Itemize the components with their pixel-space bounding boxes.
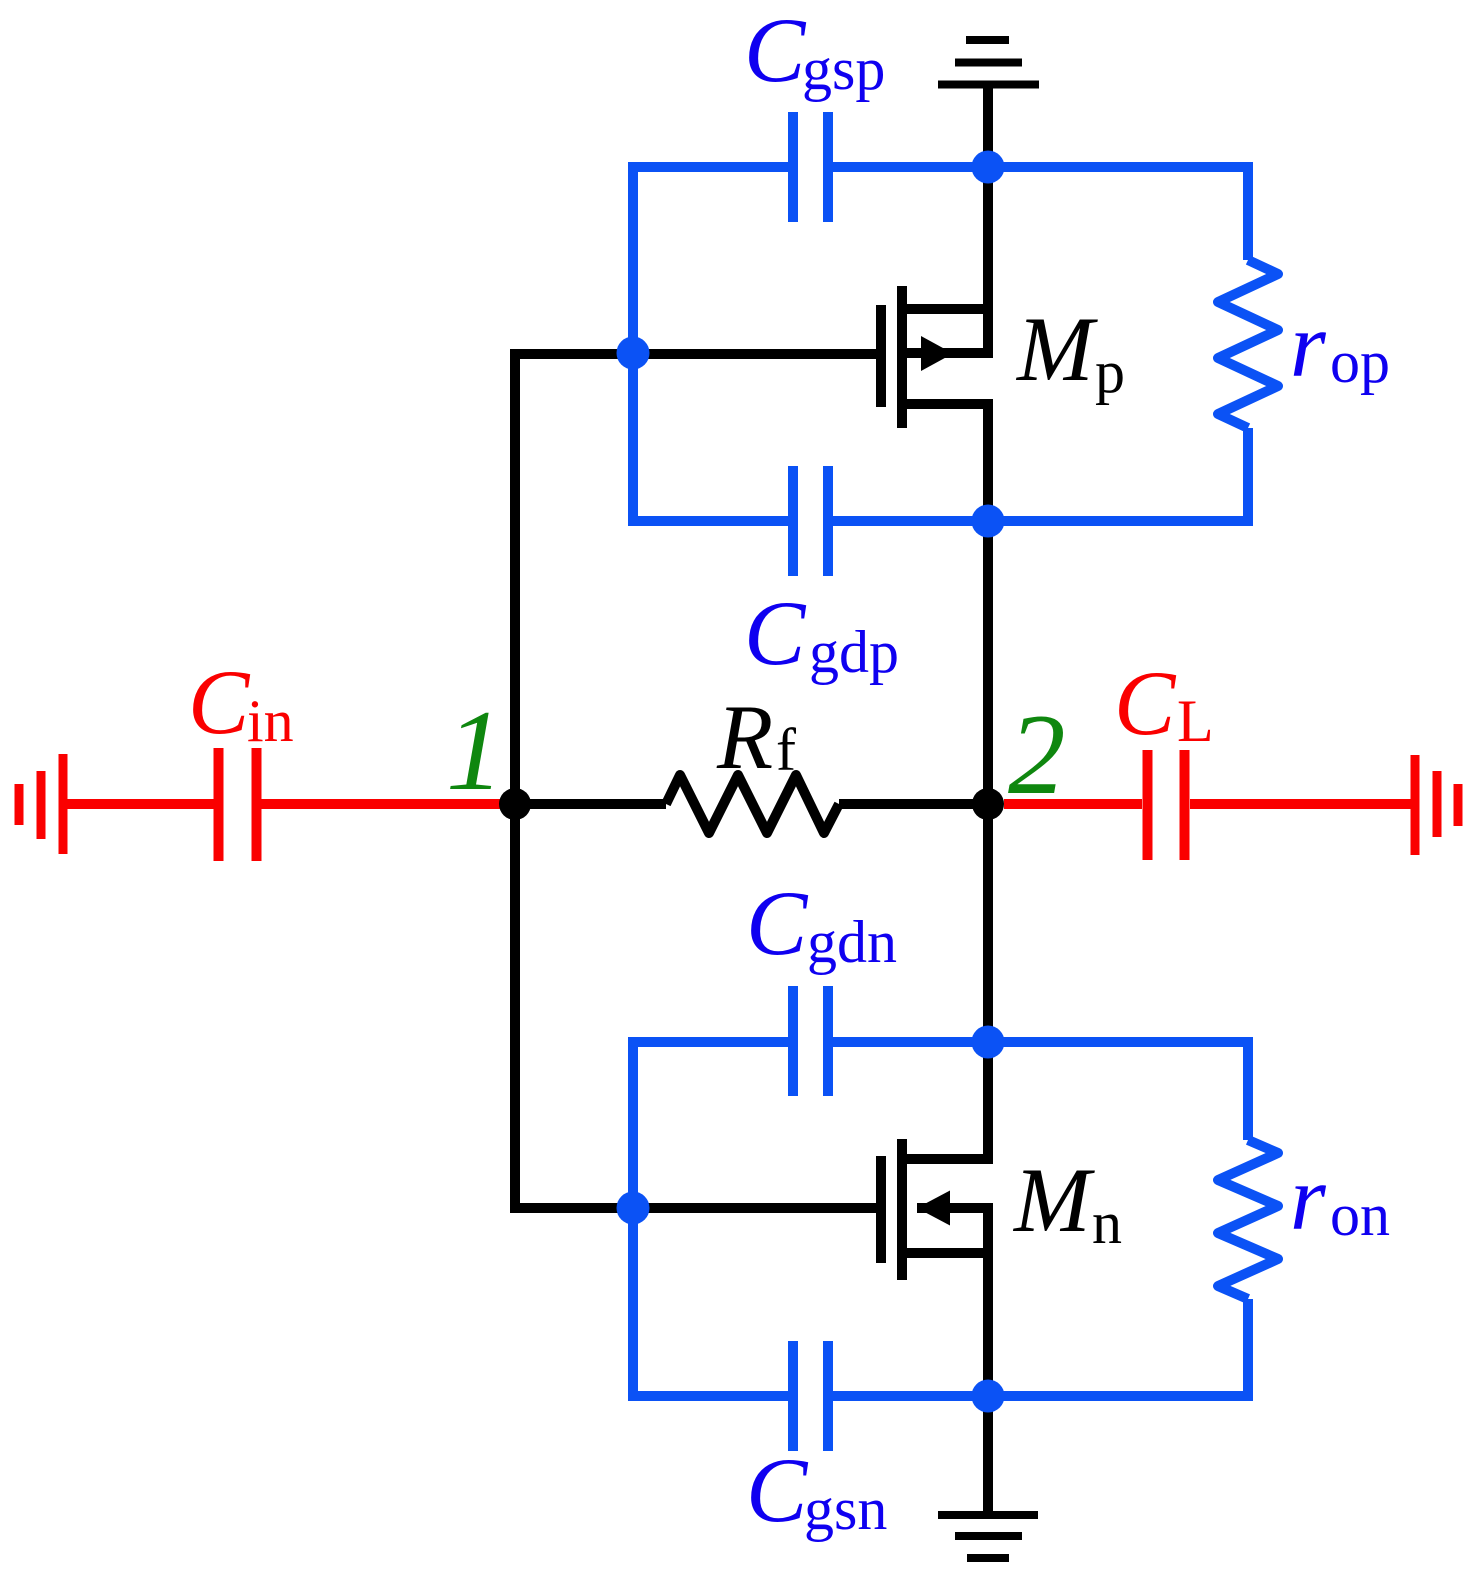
wire top ground to Mp source bbox=[983, 84, 993, 358]
capacitor Cgsp bbox=[793, 112, 828, 222]
wire blue top-left loop bbox=[633, 167, 788, 521]
wire blue row 3 to ron bbox=[833, 1042, 1248, 1140]
svg-text:1: 1 bbox=[446, 687, 504, 814]
ground (top, black) bbox=[938, 40, 1039, 85]
svg-text:n: n bbox=[1092, 1190, 1122, 1256]
label Mn bbox=[1012, 1149, 1122, 1256]
svg-text:r: r bbox=[1290, 1147, 1327, 1249]
junction blue row2 / drain line bbox=[972, 505, 1005, 538]
svg-text:C: C bbox=[744, 582, 807, 684]
ground (input, left, red) bbox=[19, 754, 63, 854]
node 2 bbox=[972, 788, 1004, 820]
wire input ground to Cin bbox=[63, 799, 214, 809]
wire CL to output ground bbox=[1190, 799, 1415, 809]
ground (output, right, red) bbox=[1415, 755, 1458, 855]
svg-text:p: p bbox=[1095, 339, 1125, 405]
resistor rop bbox=[1218, 260, 1278, 428]
svg-text:L: L bbox=[1177, 688, 1214, 754]
wire rop to blue row 2 bbox=[833, 428, 1248, 521]
label rop bbox=[1290, 294, 1390, 396]
svg-text:M: M bbox=[1012, 1149, 1095, 1251]
label Cin bbox=[188, 651, 294, 754]
svg-text:2: 2 bbox=[1008, 691, 1066, 818]
wire ron to blue row 4 bbox=[833, 1299, 1248, 1396]
junction blue row1 / drain line bbox=[972, 151, 1005, 184]
junction blue row4 / source line bbox=[972, 1380, 1005, 1413]
svg-text:gsn: gsn bbox=[804, 1476, 887, 1542]
ground (bottom, black) bbox=[938, 1515, 1038, 1558]
wire node 1 up to Mp gate bbox=[515, 354, 876, 809]
label Cgsn bbox=[746, 1439, 887, 1542]
svg-text:in: in bbox=[247, 688, 294, 754]
label node 2 bbox=[1008, 691, 1066, 818]
svg-text:M: M bbox=[1015, 298, 1098, 400]
svg-text:C: C bbox=[744, 0, 807, 101]
node 1 bbox=[499, 788, 531, 820]
svg-text:C: C bbox=[746, 872, 809, 974]
junction blue left rail / Mp gate bbox=[617, 337, 650, 370]
wire Mn source down to bottom ground bbox=[983, 1204, 993, 1519]
svg-text:gdp: gdp bbox=[809, 619, 899, 685]
svg-text:C: C bbox=[1114, 652, 1177, 754]
label Cgdp bbox=[744, 582, 899, 685]
svg-text:gdn: gdn bbox=[807, 909, 897, 975]
capacitor CL bbox=[1148, 750, 1185, 860]
resistor ron bbox=[1218, 1140, 1278, 1299]
wire blue top row to rop bbox=[833, 167, 1248, 260]
capacitor Cin bbox=[219, 748, 257, 861]
svg-text:op: op bbox=[1330, 329, 1390, 395]
junction blue left rail / Mn gate bbox=[617, 1192, 650, 1225]
label Rf bbox=[716, 686, 796, 788]
transistor Mn bbox=[881, 1139, 993, 1280]
wire node 1 down to Mn gate bbox=[515, 799, 877, 1208]
label CL bbox=[1114, 652, 1214, 754]
junction blue row3 / drain line bbox=[972, 1026, 1005, 1059]
wire Cin to node 1 bbox=[261, 799, 515, 809]
svg-text:gsp: gsp bbox=[802, 36, 885, 102]
wire node 1 to Rf bbox=[515, 799, 666, 809]
wire node 2 to CL bbox=[1004, 799, 1142, 809]
resistor Rf bbox=[666, 775, 839, 833]
svg-text:R: R bbox=[716, 686, 773, 788]
wire Mp drain to node 2 to Mn drain bbox=[983, 399, 993, 1163]
capacitor Cgdn bbox=[793, 986, 828, 1096]
label Cgsp bbox=[744, 0, 885, 102]
label node 1 bbox=[446, 687, 504, 814]
wire Rf to node 2 bbox=[839, 799, 988, 809]
capacitor Cgdp bbox=[793, 466, 828, 576]
svg-text:f: f bbox=[776, 717, 796, 783]
svg-text:on: on bbox=[1330, 1182, 1390, 1248]
label Cgdn bbox=[746, 872, 897, 975]
label Mp bbox=[1015, 298, 1125, 405]
label ron bbox=[1290, 1147, 1390, 1249]
svg-text:C: C bbox=[188, 651, 251, 753]
wire blue bottom-left loop bbox=[633, 1042, 788, 1396]
capacitor Cgsn bbox=[793, 1341, 828, 1451]
svg-text:r: r bbox=[1290, 294, 1327, 396]
svg-text:C: C bbox=[746, 1439, 809, 1541]
transistor Mp bbox=[881, 286, 993, 428]
